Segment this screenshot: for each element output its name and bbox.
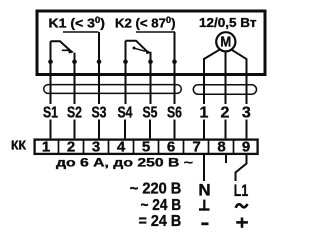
- svg-text:5: 5: [142, 138, 150, 155]
- neutral symbol: [199, 200, 210, 210]
- wire S1: [50, 41, 52, 104]
- wire S6: [174, 32, 176, 104]
- wire stub terminal 8: [225, 155, 227, 163]
- svg-text:12/0,5 Вт: 12/0,5 Вт: [199, 15, 257, 30]
- svg-text:~ 220 В: ~ 220 В: [130, 180, 182, 197]
- wire S2 to terminal 2: [74, 120, 76, 139]
- enclosure box: [37, 11, 265, 75]
- svg-text:2: 2: [221, 105, 230, 122]
- junction dot S6: [172, 59, 177, 64]
- terminal block KK outline: [35, 140, 258, 154]
- svg-text:1: 1: [42, 138, 50, 155]
- wire S3: [98, 32, 100, 104]
- svg-text:4: 4: [117, 138, 126, 155]
- plus symbol: [236, 218, 248, 228]
- wire S5: [150, 52, 152, 104]
- minus symbol: [201, 222, 208, 225]
- switch K1: [51, 41, 74, 53]
- direction select wire terminal 9 to L1: [236, 155, 247, 181]
- svg-text:КК: КК: [11, 139, 26, 153]
- svg-text:2: 2: [67, 138, 75, 155]
- junction dot S5: [148, 59, 153, 64]
- svg-text:1: 1: [200, 105, 209, 122]
- svg-text:= 24 В: = 24 В: [139, 213, 182, 230]
- switch K2 linkage line: [136, 31, 175, 33]
- wire 3 to terminal 9: [246, 120, 248, 139]
- svg-text:3: 3: [92, 138, 100, 155]
- switch K2: [126, 41, 152, 55]
- wire S2: [74, 53, 76, 104]
- wire S3 to terminal 3: [98, 120, 100, 139]
- junction dot S3: [97, 59, 102, 64]
- svg-text:S5: S5: [143, 105, 158, 122]
- svg-text:8: 8: [217, 138, 225, 155]
- wire S1 to terminal 1: [50, 120, 52, 139]
- svg-text:L1: L1: [234, 182, 249, 200]
- cable sheath right 1-3: [193, 85, 256, 94]
- wire N from terminal 7: [203, 155, 205, 181]
- svg-text:7: 7: [192, 138, 200, 155]
- switch K1 linkage line: [63, 31, 99, 33]
- wire S5 to terminal 5: [149, 120, 151, 139]
- svg-text:6: 6: [167, 138, 175, 155]
- svg-text:~ 24 В: ~ 24 В: [141, 197, 182, 214]
- cable sheath left S1-S6: [44, 85, 182, 94]
- junction dot S4: [123, 59, 128, 64]
- svg-text:S4: S4: [118, 105, 133, 122]
- svg-text:S1: S1: [43, 105, 58, 122]
- wire 2 from motor: [225, 52, 227, 104]
- wire 3 from motor: [232, 50, 247, 104]
- wire 1 from motor: [204, 50, 220, 104]
- motor M1: [216, 32, 235, 51]
- junction dot S1: [48, 59, 53, 64]
- svg-text:M: M: [220, 34, 231, 51]
- junction dot S2: [72, 59, 77, 64]
- wire 2 to terminal 8: [225, 120, 227, 139]
- svg-text:S6: S6: [167, 105, 182, 122]
- svg-text:S3: S3: [92, 105, 107, 122]
- wire 1 to terminal 7: [203, 120, 205, 139]
- svg-text:3: 3: [242, 105, 251, 122]
- wire S4: [125, 41, 127, 104]
- wire S6 to terminal 6: [174, 120, 176, 139]
- svg-text:до 6 А, до 250 В ~: до 6 А, до 250 В ~: [56, 156, 193, 170]
- svg-text:9: 9: [242, 138, 250, 155]
- AC symbol under L1: [236, 204, 248, 208]
- svg-text:S2: S2: [67, 105, 82, 122]
- svg-text:N: N: [198, 181, 210, 200]
- wire S4 to terminal 4: [124, 120, 126, 139]
